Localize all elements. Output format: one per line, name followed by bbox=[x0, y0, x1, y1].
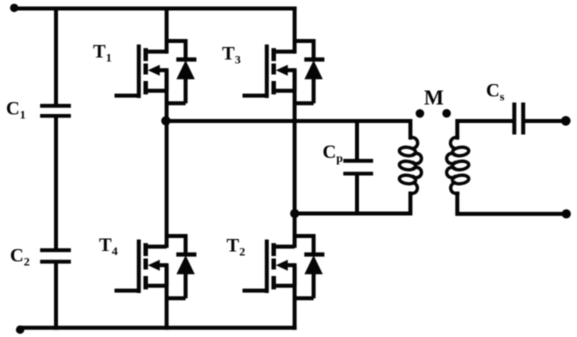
wire top rail bbox=[14, 7, 295, 11]
transistor T1 with body diode bbox=[115, 39, 197, 103]
svg-text:M: M bbox=[424, 86, 444, 110]
wire capacitor branch upper bbox=[54, 9, 58, 105]
transistor T2 with body diode bbox=[243, 234, 325, 298]
svg-text:T4: T4 bbox=[99, 235, 118, 258]
junction node B dot bbox=[290, 209, 299, 218]
transistor T3 with body diode bbox=[243, 39, 325, 103]
terminal dot output top bbox=[561, 116, 571, 126]
wire Cp branch bottom bbox=[355, 176, 359, 214]
wire left leg middle through node A bbox=[165, 70, 169, 246]
inductor Lp primary coil bbox=[399, 137, 422, 193]
wire secondary to terminal bbox=[526, 119, 566, 123]
transistor T4 with body diode bbox=[115, 234, 197, 298]
wire bottom rail bbox=[20, 326, 295, 330]
capacitor C2 bbox=[42, 250, 69, 262]
svg-text:C2: C2 bbox=[10, 246, 30, 269]
wire Cp branch top bbox=[355, 121, 359, 159]
terminal dot output bottom bbox=[562, 209, 571, 218]
wire secondary bottom bbox=[457, 194, 566, 214]
svg-text:T3: T3 bbox=[222, 44, 241, 67]
svg-text:Cp: Cp bbox=[323, 142, 344, 165]
svg-text:Cs: Cs bbox=[486, 81, 505, 104]
wire left leg drain T1 bbox=[165, 9, 169, 52]
svg-text:T1: T1 bbox=[93, 42, 112, 65]
capacitor Cs bbox=[514, 105, 523, 133]
inductor Ls secondary coil bbox=[447, 137, 470, 193]
svg-text:C1: C1 bbox=[6, 99, 26, 122]
wire bridge output bottom bbox=[295, 194, 411, 214]
junction node A dot bbox=[161, 116, 170, 125]
transformer phase dot primary bbox=[416, 109, 425, 118]
capacitor Cp bbox=[345, 161, 371, 174]
wire capacitor branch lower bbox=[54, 264, 58, 328]
capacitor C1 bbox=[42, 106, 69, 116]
terminal dot input top bbox=[10, 4, 18, 12]
wire bridge output top bbox=[167, 121, 411, 138]
svg-text:T2: T2 bbox=[227, 236, 246, 259]
wire capacitor branch middle bbox=[54, 118, 58, 249]
wire left leg source T4 bbox=[165, 265, 169, 328]
transformer phase dot secondary bbox=[442, 109, 451, 118]
wire right leg source T2 bbox=[293, 265, 297, 328]
wire secondary top bbox=[457, 121, 512, 138]
terminal dot input bottom bbox=[16, 326, 24, 334]
wire right leg drain T3 bbox=[293, 9, 297, 52]
wire right leg middle through node B bbox=[293, 70, 297, 246]
